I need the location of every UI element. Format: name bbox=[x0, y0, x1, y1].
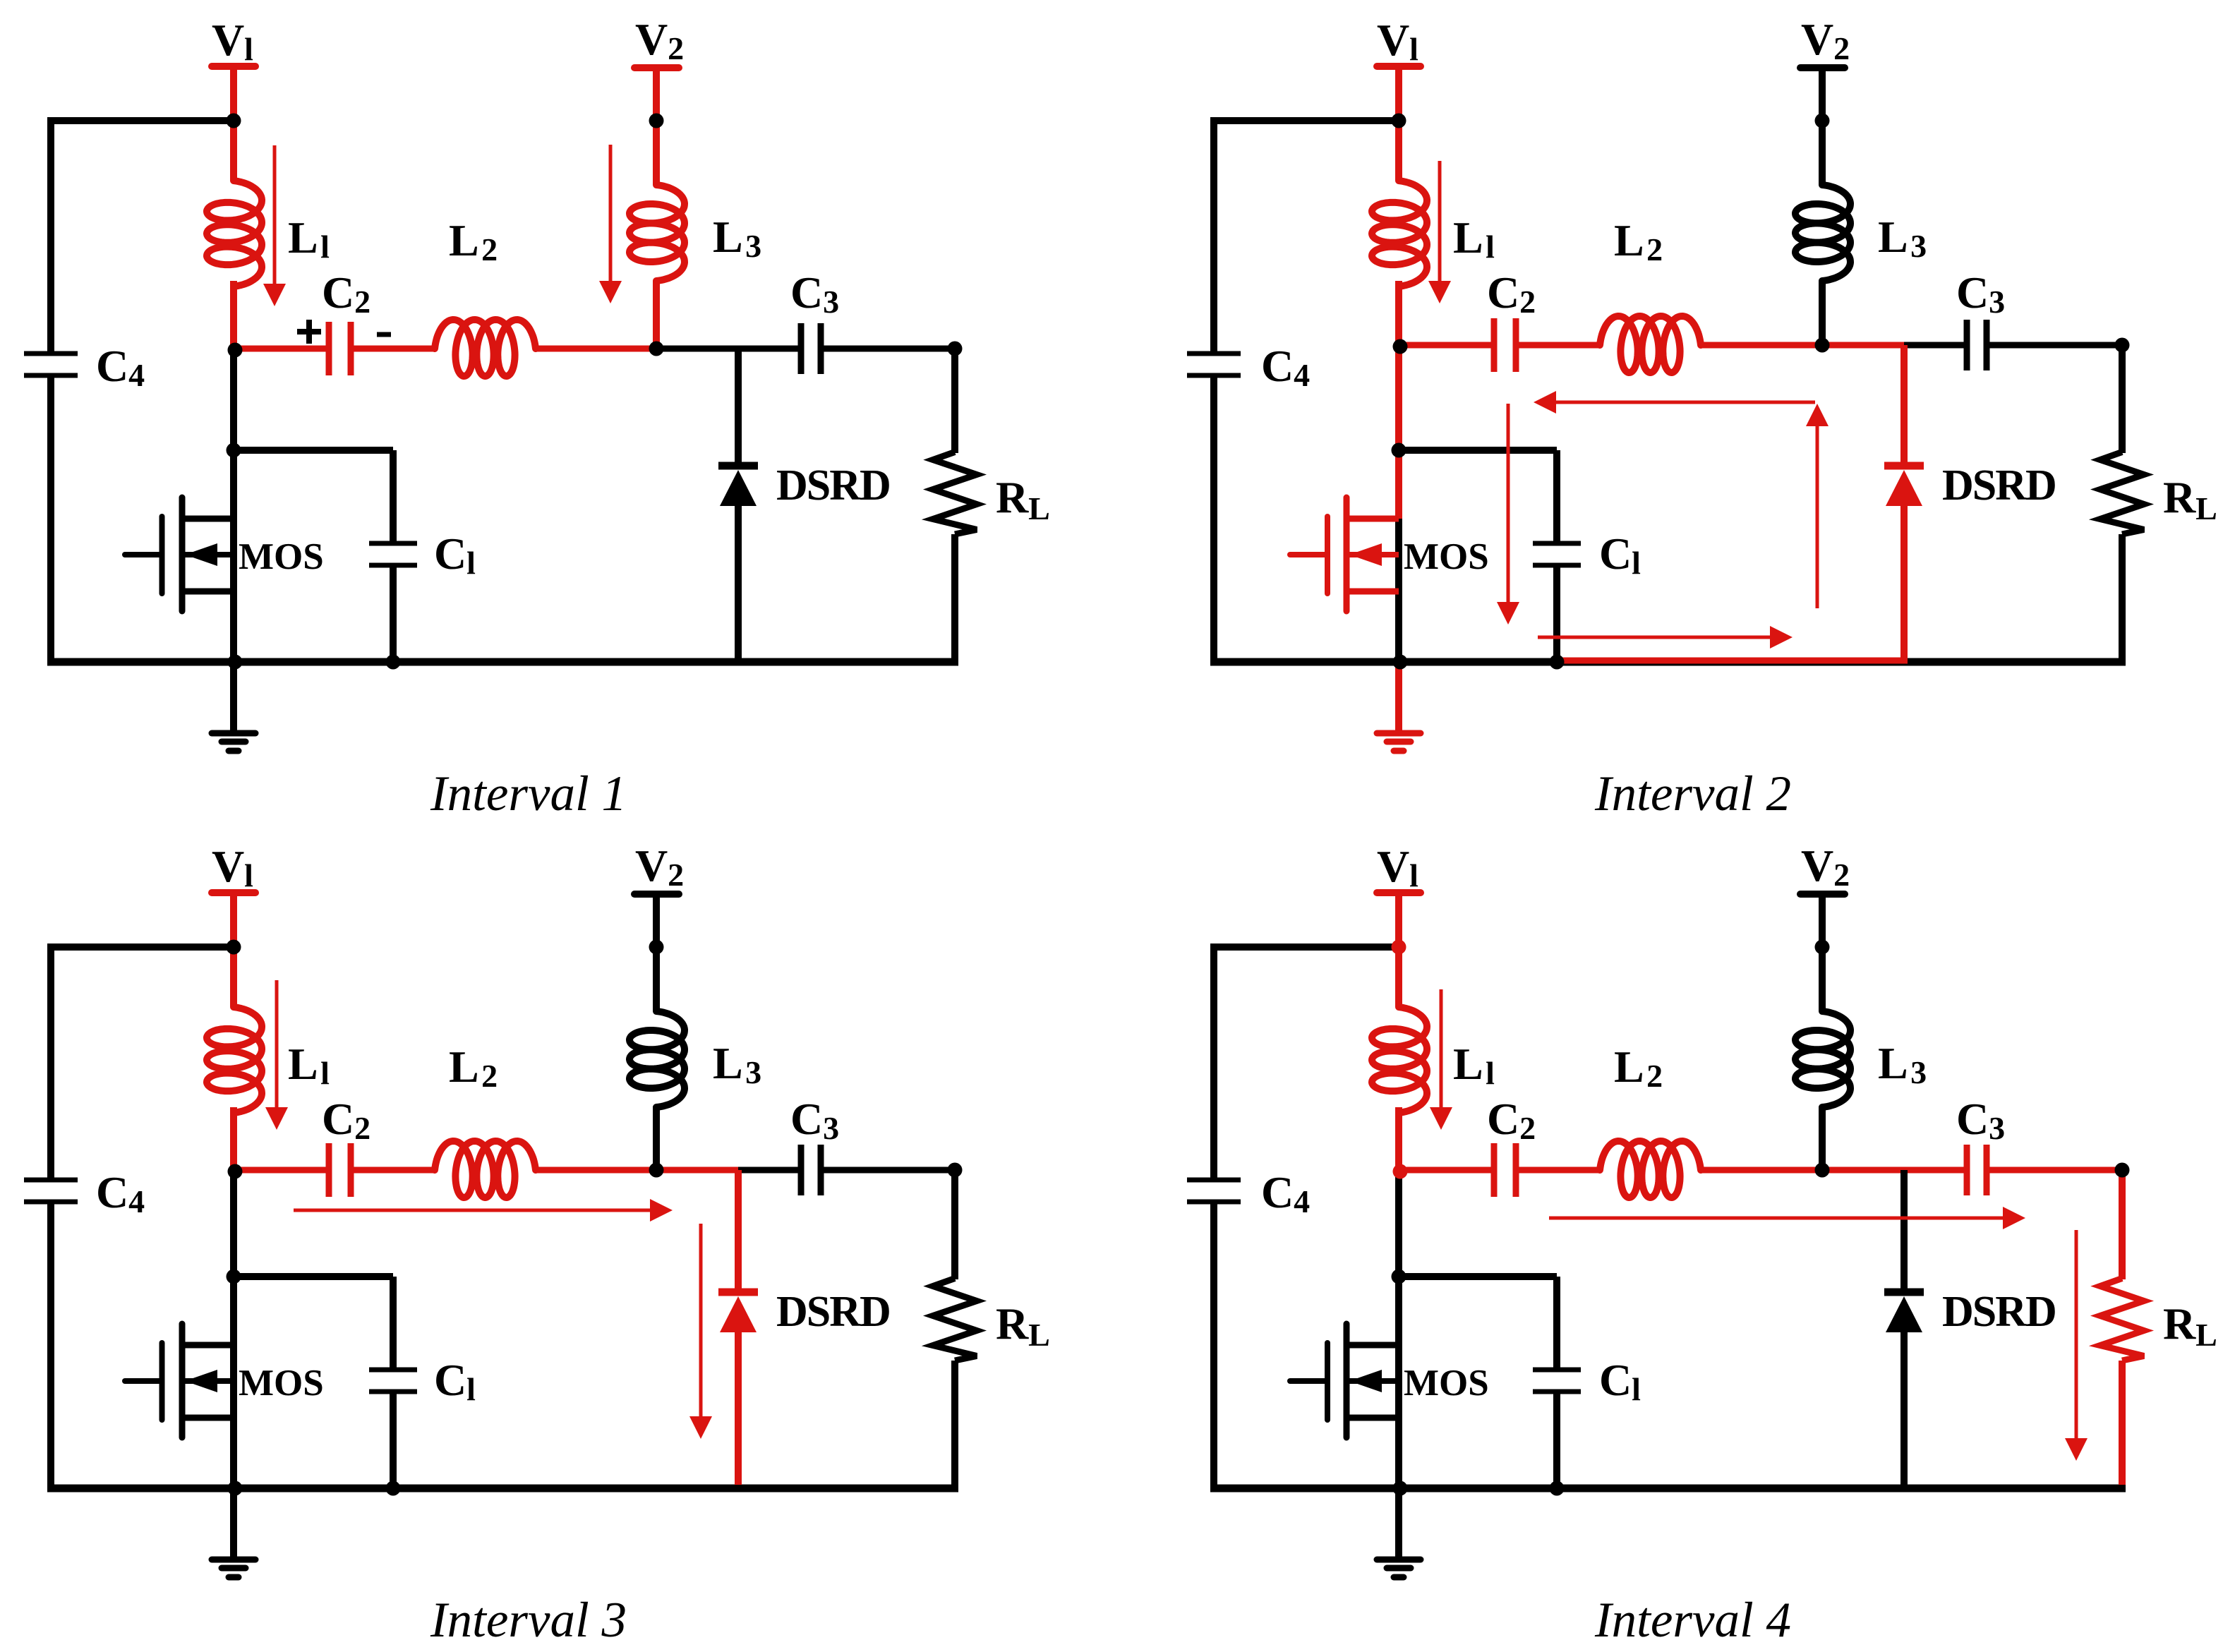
label C4 bbox=[1261, 1167, 1310, 1219]
ground bbox=[1377, 733, 1421, 751]
battery V1 bbox=[212, 889, 255, 896]
svg-text:3: 3 bbox=[745, 1054, 761, 1090]
label DSRD bbox=[1942, 1288, 2056, 1336]
inductor L1 bbox=[1372, 181, 1427, 287]
capacitor C1 bbox=[1533, 543, 1581, 565]
panel Interval 3 bbox=[24, 840, 1050, 1648]
wire DSRD branch lower bbox=[735, 1329, 742, 1485]
transistor MOS drain stub bbox=[1347, 1342, 1399, 1349]
arrow current loop left bbox=[1534, 391, 1815, 414]
battery V2 bbox=[634, 64, 679, 71]
transistor MOS channel bar bbox=[1344, 498, 1350, 611]
transistor MOS body arrow bbox=[1349, 543, 1399, 566]
svg-text:L: L bbox=[1453, 1039, 1483, 1089]
wire node B to DSRD tee bbox=[1822, 342, 1904, 349]
label DSRD bbox=[776, 462, 890, 510]
svg-text:C: C bbox=[434, 1355, 466, 1405]
svg-text:l: l bbox=[320, 229, 330, 265]
capacitor C1 bbox=[1533, 1370, 1581, 1392]
label C4 bbox=[1261, 341, 1310, 393]
svg-text:Interval 3: Interval 3 bbox=[430, 1593, 627, 1648]
svg-text:C: C bbox=[1261, 1167, 1294, 1217]
wire MOS source to bottom bus bbox=[230, 1345, 237, 1488]
svg-text:L: L bbox=[2195, 1317, 2217, 1353]
diode DSRD bbox=[1884, 466, 1924, 506]
wire V2 stem bbox=[653, 894, 660, 1011]
node V1 top junction bbox=[227, 114, 241, 128]
label L3 bbox=[713, 212, 761, 264]
wire node A to drain junction bbox=[1395, 1170, 1402, 1277]
node B bbox=[649, 1163, 664, 1178]
wire C4 left vertical upper bbox=[1210, 947, 1217, 1180]
label MOS bbox=[1404, 1363, 1489, 1404]
wire V2 stem bbox=[653, 68, 660, 185]
svg-text:l: l bbox=[244, 857, 253, 893]
wire C2 to L2 bbox=[1519, 342, 1600, 349]
transistor MOS body arrow bbox=[1349, 1370, 1399, 1392]
svg-text:3: 3 bbox=[823, 284, 839, 320]
svg-text:C: C bbox=[434, 529, 466, 579]
svg-text:L: L bbox=[1614, 1042, 1644, 1092]
label RL bbox=[996, 1298, 1050, 1353]
svg-text:3: 3 bbox=[745, 228, 761, 264]
capacitor C4 bbox=[24, 354, 78, 375]
node drain junction bbox=[227, 443, 241, 458]
transistor MOS channel bar bbox=[179, 498, 186, 611]
inductor L1 bbox=[207, 1007, 262, 1113]
label L3 bbox=[1878, 212, 1927, 264]
svg-text:2: 2 bbox=[1833, 857, 1850, 893]
wire L3 to node B bbox=[1819, 1107, 1826, 1170]
svg-text:DSRD: DSRD bbox=[1942, 462, 2056, 510]
diode DSRD bbox=[1884, 1292, 1924, 1332]
svg-text:l: l bbox=[466, 1371, 476, 1407]
transistor MOS drain stub bbox=[182, 1342, 234, 1349]
label MOS bbox=[1404, 536, 1489, 577]
wire V2 stem bbox=[1819, 894, 1826, 1011]
inductor L2 bbox=[1600, 1141, 1701, 1198]
diode DSRD bbox=[718, 466, 758, 506]
node V1 top junction bbox=[1392, 940, 1406, 955]
inductor L3 bbox=[629, 1011, 685, 1107]
capacitor C4 bbox=[1187, 1180, 1241, 1202]
label MOS bbox=[239, 1363, 324, 1404]
label C1 bbox=[1599, 1355, 1641, 1407]
capacitor C4 bbox=[1187, 354, 1241, 375]
battery V2 bbox=[1800, 891, 1845, 898]
transistor MOS body arrow bbox=[185, 543, 234, 566]
wire L1 to node A bbox=[1395, 1107, 1402, 1170]
node C1 bottom junction bbox=[386, 1481, 401, 1496]
node A bbox=[228, 1164, 243, 1179]
wire right node to RL bbox=[2119, 345, 2126, 453]
label C4 bbox=[96, 341, 145, 393]
label MOS bbox=[239, 536, 324, 577]
wire DSRD tee to C3 bbox=[1904, 1167, 1964, 1174]
svg-text:L: L bbox=[449, 1042, 479, 1092]
svg-text:2: 2 bbox=[668, 857, 684, 893]
label C2 bbox=[322, 267, 370, 320]
node drain junction bbox=[227, 1270, 241, 1284]
wire C4 left vertical lower bbox=[47, 1202, 54, 1488]
inductor L2 bbox=[1600, 316, 1701, 373]
svg-text:C: C bbox=[322, 267, 354, 318]
wire C4 left vertical lower bbox=[1210, 375, 1217, 662]
wire top-left horizontal bbox=[1210, 117, 1399, 124]
capacitor C1 bbox=[369, 543, 417, 565]
wire L2 to node B bbox=[536, 346, 656, 352]
arrow current L1 bbox=[1428, 161, 1451, 303]
transistor MOS gate lead bbox=[1290, 552, 1327, 557]
wire C2 to L2 bbox=[1519, 1167, 1600, 1174]
wire MOS source to bottom bus bbox=[230, 519, 237, 662]
wire MOS source to bottom bus bbox=[1395, 1345, 1402, 1488]
wire ground stem bbox=[230, 662, 237, 732]
wire node A to drain junction bbox=[230, 349, 237, 450]
node A bbox=[228, 343, 243, 358]
svg-text:C: C bbox=[1599, 1355, 1632, 1405]
ground bbox=[212, 733, 255, 751]
inductor L1 bbox=[1372, 1007, 1427, 1113]
svg-text:3: 3 bbox=[1989, 1110, 2005, 1146]
wire C3 to right node bbox=[824, 1167, 955, 1174]
label plus sign bbox=[297, 320, 321, 344]
wire node A to C2 bbox=[1399, 1167, 1491, 1174]
panel Interval 1 bbox=[24, 14, 1050, 821]
svg-text:Interval 2: Interval 2 bbox=[1594, 766, 1791, 821]
svg-text:DSRD: DSRD bbox=[1942, 1288, 2056, 1336]
wire right node to RL bbox=[2119, 1170, 2126, 1279]
transistor MOS gate bar bbox=[159, 517, 165, 593]
svg-text:MOS: MOS bbox=[1404, 536, 1489, 577]
battery V1 bbox=[212, 63, 255, 70]
svg-text:L: L bbox=[1878, 1038, 1908, 1088]
wire DSRD branch lower bbox=[1900, 502, 1908, 658]
svg-text:L: L bbox=[713, 212, 743, 262]
label L1 bbox=[288, 1039, 330, 1091]
wire ground stem bbox=[1395, 662, 1402, 732]
wire L3 to node B bbox=[653, 281, 660, 349]
svg-text:4: 4 bbox=[1294, 357, 1310, 393]
wire C4 left vertical upper bbox=[1210, 121, 1217, 354]
transistor MOS channel bar bbox=[1344, 1324, 1350, 1437]
wire drain junction to C1 bbox=[234, 1277, 393, 1370]
label L2 bbox=[1614, 215, 1663, 267]
svg-text:3: 3 bbox=[823, 1110, 839, 1146]
svg-text:C: C bbox=[1261, 341, 1294, 391]
transistor MOS gate lead bbox=[1290, 1378, 1327, 1384]
wire drain junction to C1 bbox=[1399, 1277, 1557, 1370]
inductor L2 bbox=[435, 1141, 536, 1198]
arrow current down right bbox=[2065, 1230, 2088, 1461]
label V2 bbox=[635, 840, 684, 893]
svg-text:2: 2 bbox=[481, 1058, 498, 1094]
capacitor C2 bbox=[1494, 318, 1516, 372]
svg-text:4: 4 bbox=[128, 357, 145, 393]
svg-text:V: V bbox=[212, 15, 244, 65]
label L2 bbox=[1614, 1042, 1663, 1094]
svg-text:C: C bbox=[1956, 267, 1989, 318]
svg-text:V: V bbox=[635, 14, 668, 64]
svg-text:2: 2 bbox=[1646, 231, 1663, 267]
svg-text:C: C bbox=[322, 1094, 354, 1144]
wire C3 to right node bbox=[1989, 1167, 2122, 1174]
node source bottom junction bbox=[228, 1481, 243, 1496]
capacitor C2 bbox=[329, 322, 351, 375]
label C2 bbox=[322, 1094, 370, 1146]
arrow current loop up bbox=[1806, 404, 1829, 608]
svg-text:L: L bbox=[1878, 212, 1908, 262]
node drain junction bbox=[1392, 443, 1406, 458]
svg-text:C: C bbox=[1599, 529, 1632, 579]
svg-text:C: C bbox=[790, 1094, 823, 1144]
wire V1 stem bbox=[230, 66, 237, 181]
label DSRD bbox=[1942, 462, 2056, 510]
node V2 top junction bbox=[649, 940, 664, 955]
wire C4 left vertical lower bbox=[1210, 1202, 1217, 1488]
svg-text:l: l bbox=[1632, 1371, 1641, 1407]
node V2 top junction bbox=[649, 114, 664, 128]
svg-text:V: V bbox=[635, 840, 668, 891]
wire DSRD branch upper bbox=[735, 1170, 742, 1289]
transistor MOS gate lead bbox=[125, 552, 162, 557]
svg-text:V: V bbox=[1801, 14, 1833, 64]
label RL bbox=[2163, 472, 2217, 526]
wire C4 left vertical upper bbox=[47, 947, 54, 1180]
capacitor C3 bbox=[801, 323, 821, 374]
resistor RL bbox=[933, 452, 977, 535]
arrow current L3 bbox=[599, 145, 622, 303]
transistor MOS source stub bbox=[1347, 589, 1399, 595]
svg-text:Interval 1: Interval 1 bbox=[430, 766, 627, 821]
inductor L1 bbox=[207, 181, 262, 287]
node source bottom junction bbox=[1393, 655, 1408, 670]
wire top-left horizontal bbox=[47, 943, 234, 951]
label C3 bbox=[790, 267, 839, 320]
svg-text:V: V bbox=[1377, 841, 1409, 891]
capacitor C4 bbox=[24, 1180, 78, 1202]
svg-text:R: R bbox=[996, 472, 1029, 522]
node V1 top junction bbox=[227, 940, 241, 955]
wire L1 to node A bbox=[1395, 281, 1402, 345]
wire node A to C2 bbox=[234, 1167, 326, 1174]
arrow current loop right bbox=[1538, 626, 1793, 649]
node A bbox=[1393, 1164, 1408, 1179]
svg-text:3: 3 bbox=[1910, 1054, 1927, 1090]
label L2 bbox=[449, 215, 498, 267]
arrow current L1 bbox=[1430, 989, 1452, 1130]
inductor L3 bbox=[1795, 185, 1850, 281]
label RL bbox=[2163, 1298, 2217, 1353]
wire C2 to L2 bbox=[354, 346, 435, 352]
label Interval 3 bbox=[430, 1593, 627, 1648]
node source bottom junction bbox=[228, 655, 243, 670]
svg-text:l: l bbox=[1632, 545, 1641, 581]
svg-text:L: L bbox=[713, 1038, 743, 1088]
svg-text:L: L bbox=[1028, 1317, 1050, 1353]
transistor MOS gate bar bbox=[159, 1343, 165, 1420]
svg-text:L: L bbox=[1028, 490, 1050, 526]
label L3 bbox=[1878, 1038, 1927, 1090]
svg-text:L: L bbox=[449, 215, 479, 265]
wire C4 left vertical lower bbox=[47, 375, 54, 662]
wire RL to bottom bus bbox=[2119, 1361, 2126, 1485]
label V1 bbox=[1377, 841, 1418, 893]
wire top-left horizontal bbox=[47, 117, 234, 124]
wire C3 to right node bbox=[1989, 342, 2122, 349]
svg-text:V: V bbox=[1377, 15, 1409, 65]
svg-text:2: 2 bbox=[1519, 284, 1536, 320]
inductor L3 bbox=[1795, 1011, 1850, 1107]
wire node A to drain junction bbox=[230, 1170, 237, 1277]
resistor RL bbox=[2100, 1279, 2144, 1361]
inductor L2 bbox=[435, 320, 536, 376]
diode DSRD bbox=[718, 1292, 758, 1332]
wire RL to bottom bus bbox=[951, 534, 958, 662]
label C1 bbox=[1599, 529, 1641, 581]
capacitor C2 bbox=[329, 1143, 351, 1197]
svg-text:2: 2 bbox=[481, 231, 498, 267]
svg-text:C: C bbox=[1956, 1094, 1989, 1144]
wire node A to C2 bbox=[1399, 342, 1491, 349]
label Interval 4 bbox=[1594, 1593, 1791, 1648]
wire drain junction to drain stub bbox=[230, 1277, 237, 1345]
wire L3 to node B bbox=[1819, 281, 1826, 345]
svg-text:L: L bbox=[1614, 215, 1644, 265]
svg-text:l: l bbox=[1486, 229, 1495, 265]
svg-text:2: 2 bbox=[354, 1110, 370, 1146]
wire V1 stem bbox=[1395, 66, 1402, 181]
svg-text:C: C bbox=[1487, 1094, 1519, 1144]
transistor MOS gate bar bbox=[1325, 517, 1330, 593]
wire L1 to node A bbox=[230, 1107, 237, 1170]
wire drain junction to C1 bbox=[1399, 450, 1557, 543]
wire drain junction to C1 bbox=[234, 450, 393, 543]
capacitor C3 bbox=[1967, 1145, 1987, 1195]
wire top-left horizontal bbox=[1210, 943, 1399, 951]
wire bottom bus bbox=[1210, 1485, 2126, 1493]
wire L3 to node B bbox=[653, 1107, 660, 1170]
svg-text:C: C bbox=[1487, 267, 1519, 318]
svg-text:l: l bbox=[1486, 1055, 1495, 1091]
wire DSRD tee to C3 bbox=[738, 346, 798, 352]
ground bbox=[1377, 1560, 1421, 1577]
transistor MOS gate bar bbox=[1325, 1343, 1330, 1420]
battery V1 bbox=[1377, 63, 1421, 70]
transistor MOS source stub bbox=[1347, 1415, 1399, 1421]
wire V2 stem bbox=[1819, 68, 1826, 185]
transistor MOS drain stub bbox=[182, 516, 234, 522]
wire bottom bus bbox=[47, 658, 958, 666]
wire V1 stem bbox=[1395, 893, 1402, 1007]
svg-text:L: L bbox=[288, 212, 318, 263]
svg-text:R: R bbox=[2163, 1298, 2196, 1349]
wire DSRD branch lower bbox=[1900, 1329, 1908, 1488]
svg-text:R: R bbox=[2163, 472, 2196, 522]
node right top bbox=[948, 342, 963, 356]
label C1 bbox=[434, 529, 476, 581]
wire RL to bottom bus bbox=[951, 1361, 958, 1488]
label C2 bbox=[1487, 1094, 1536, 1146]
node B bbox=[649, 342, 664, 356]
capacitor C2 bbox=[1494, 1143, 1516, 1197]
node C1 bottom junction bbox=[1550, 655, 1565, 670]
label C3 bbox=[790, 1094, 839, 1146]
label L3 bbox=[713, 1038, 761, 1090]
svg-text:2: 2 bbox=[1833, 30, 1850, 66]
panel Interval 2 bbox=[1187, 14, 2217, 821]
label V1 bbox=[212, 841, 253, 893]
svg-text:2: 2 bbox=[1646, 1058, 1663, 1094]
label RL bbox=[996, 472, 1050, 526]
arrow current right long bbox=[1549, 1207, 2025, 1229]
svg-text:C: C bbox=[96, 1167, 128, 1217]
wire node B to DSRD tee bbox=[1822, 1167, 1904, 1174]
svg-text:V: V bbox=[1801, 840, 1833, 891]
wire node A to drain junction bbox=[1395, 345, 1402, 450]
arrow current L1 bbox=[265, 980, 288, 1130]
wire C4 left vertical upper bbox=[47, 121, 54, 354]
label C3 bbox=[1956, 1094, 2005, 1146]
wire ground stem bbox=[1395, 1488, 1402, 1558]
svg-text:l: l bbox=[320, 1055, 330, 1091]
wire DSRD branch upper bbox=[735, 349, 742, 463]
label L1 bbox=[1453, 212, 1495, 265]
ground bbox=[212, 1560, 255, 1577]
svg-text:MOS: MOS bbox=[239, 536, 324, 577]
wire DSRD tee to C3 bbox=[738, 1167, 798, 1174]
svg-text:l: l bbox=[244, 31, 253, 67]
label V2 bbox=[635, 14, 684, 66]
panel Interval 4 bbox=[1187, 840, 2217, 1648]
wire C1 to bottom bus bbox=[390, 565, 397, 662]
node C1 bottom junction bbox=[1550, 1481, 1565, 1496]
battery V2 bbox=[1800, 64, 1845, 71]
svg-text:C: C bbox=[790, 267, 823, 318]
svg-text:3: 3 bbox=[1989, 284, 2005, 320]
svg-text:DSRD: DSRD bbox=[776, 1288, 890, 1336]
wire L2 to node B bbox=[536, 1167, 656, 1174]
svg-text:2: 2 bbox=[354, 284, 370, 320]
wire RL to bottom bus bbox=[2119, 534, 2126, 662]
svg-text:4: 4 bbox=[128, 1183, 145, 1219]
arrow current L1 bbox=[263, 145, 286, 306]
capacitor C3 bbox=[1967, 320, 1987, 370]
wire MOS source to bottom bus bbox=[1395, 519, 1402, 662]
transistor MOS body arrow bbox=[185, 1370, 234, 1392]
svg-text:Interval 4: Interval 4 bbox=[1594, 1593, 1791, 1648]
node A bbox=[1393, 339, 1408, 354]
wire L2 to node B bbox=[1701, 1167, 1822, 1174]
wire L1 to node A bbox=[230, 281, 237, 349]
svg-text:L: L bbox=[1453, 212, 1483, 263]
label V1 bbox=[1377, 15, 1418, 67]
transistor MOS source stub bbox=[182, 589, 234, 595]
label L1 bbox=[1453, 1039, 1495, 1091]
label DSRD bbox=[776, 1288, 890, 1336]
wire drain junction to drain stub bbox=[1395, 450, 1402, 519]
svg-text:l: l bbox=[1409, 31, 1418, 67]
svg-text:DSRD: DSRD bbox=[776, 462, 890, 510]
svg-text:MOS: MOS bbox=[1404, 1363, 1489, 1404]
transistor MOS gate lead bbox=[125, 1378, 162, 1384]
node V2 top junction bbox=[1815, 940, 1830, 955]
transistor MOS source stub bbox=[182, 1415, 234, 1421]
svg-text:2: 2 bbox=[1519, 1110, 1536, 1146]
label C2 bbox=[1487, 267, 1536, 320]
svg-text:l: l bbox=[466, 545, 476, 581]
capacitor C1 bbox=[369, 1370, 417, 1392]
